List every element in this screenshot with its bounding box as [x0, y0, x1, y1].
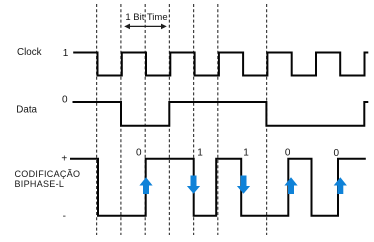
blue up transition arrow (bit 6) — [334, 177, 347, 194]
svg-text:0: 0 — [334, 148, 340, 159]
svg-text:1 Bit Time: 1 Bit Time — [125, 12, 167, 23]
svg-text:+: + — [61, 154, 67, 165]
svg-text:0: 0 — [285, 147, 291, 158]
svg-text:Clock: Clock — [17, 47, 42, 58]
svg-text:BIPHASE-L: BIPHASE-L — [15, 179, 65, 189]
bit-time double-headed arrow — [124, 24, 167, 30]
biphase-L waveform — [70, 159, 366, 216]
gridline x=96.6 — [96, 4, 98, 235]
gridline x=193.6 — [193, 4, 195, 235]
data waveform — [73, 102, 369, 126]
gridline x=120.9 — [120, 4, 122, 235]
svg-text:-: - — [63, 211, 66, 222]
blue down transition arrow (bit 4) — [237, 176, 250, 194]
svg-text:CODIFICAÇÃO: CODIFICAÇÃO — [15, 169, 81, 179]
svg-text:0: 0 — [136, 147, 142, 158]
svg-text:1: 1 — [197, 147, 203, 158]
blue up transition arrow (bit 2) — [139, 177, 152, 194]
svg-text:1: 1 — [63, 48, 69, 59]
svg-text:0: 0 — [62, 94, 68, 105]
dashed bit-boundary gridlines — [97, 4, 267, 235]
blue up transition arrow (bit 5) — [284, 177, 297, 194]
svg-text:1: 1 — [243, 147, 249, 158]
gridline x=145.2 — [144, 4, 146, 235]
clock waveform — [73, 53, 368, 76]
gridline x=266.6 — [266, 4, 268, 235]
gridline x=169.4 — [168, 4, 170, 235]
gridline x=217.8 — [217, 4, 219, 235]
blue down transition arrow (bit 3) — [187, 176, 200, 194]
svg-text:Data: Data — [16, 105, 37, 116]
